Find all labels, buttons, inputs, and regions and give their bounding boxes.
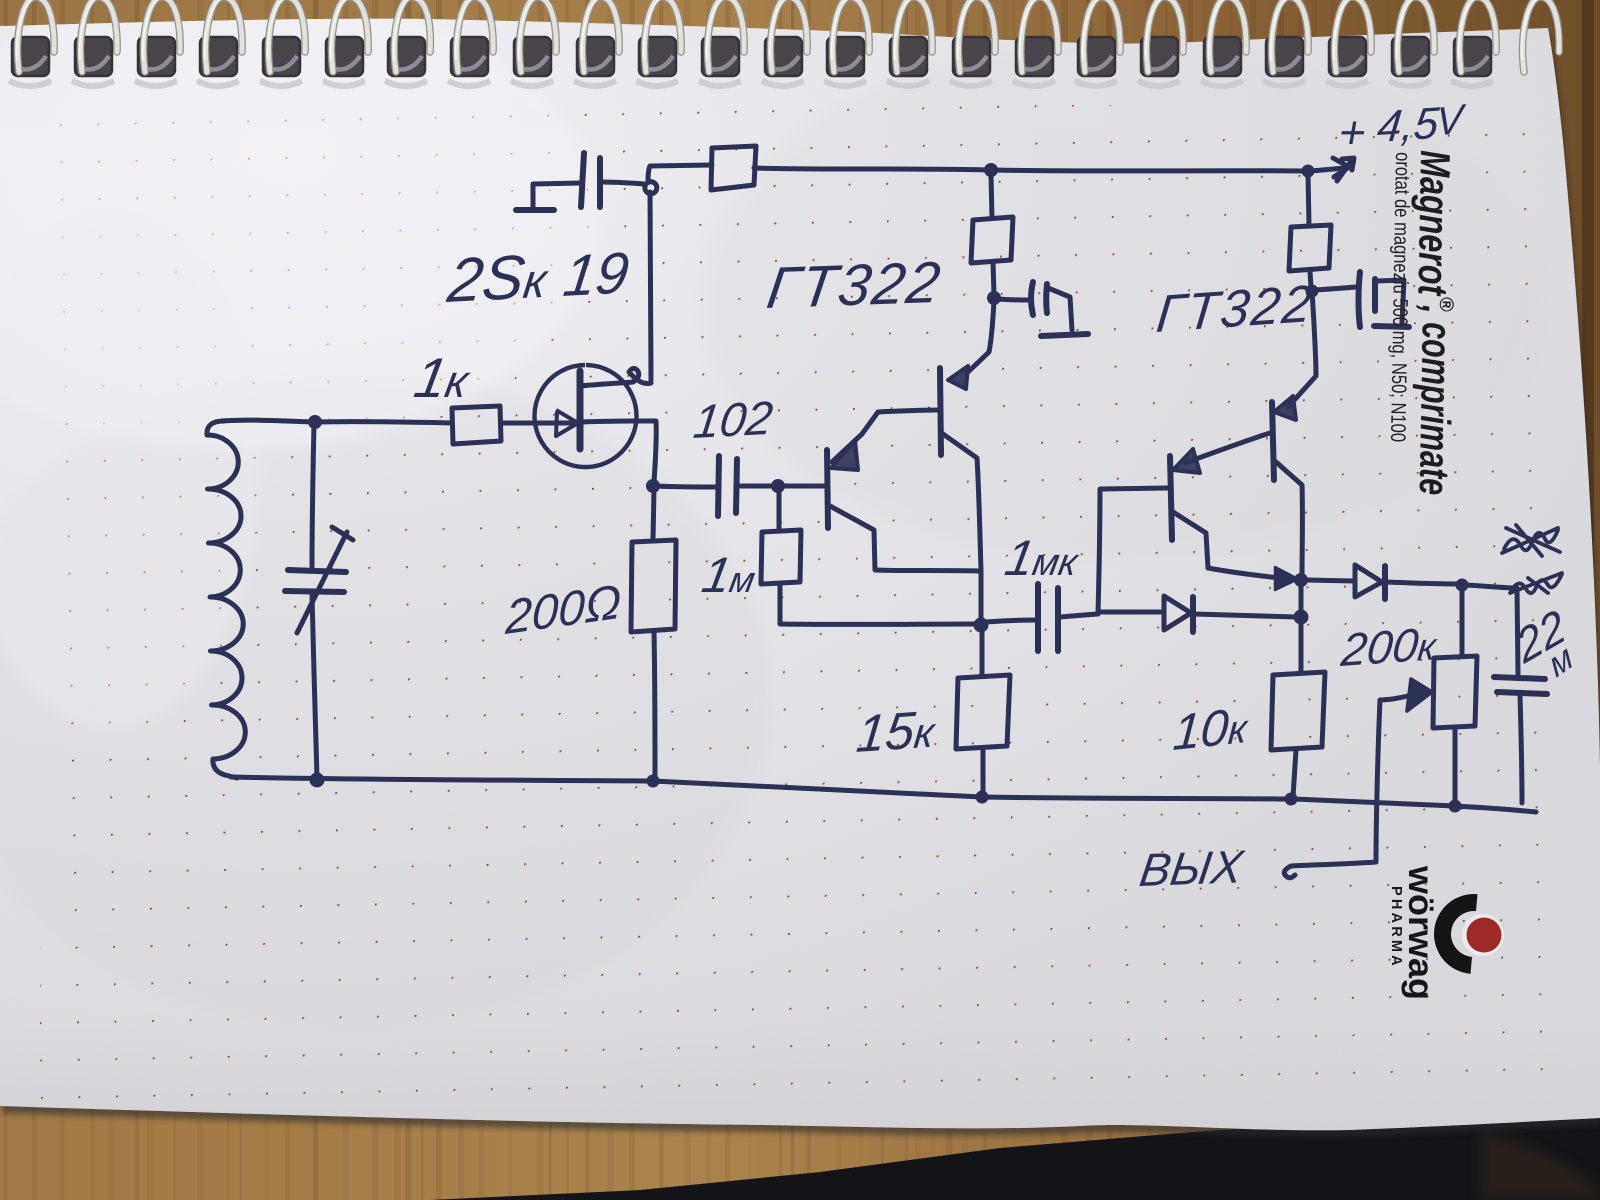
- C2 stub lead: [1048, 288, 1072, 330]
- top-left capacitor C1 lead: [533, 183, 581, 209]
- transistor V4 emitter wire from node: [1288, 292, 1316, 407]
- svg-text:15к: 15к: [854, 700, 940, 764]
- resistor R4 200ohm box: [631, 540, 676, 632]
- resistor R8 10k wire top: [1299, 621, 1304, 673]
- JFET V1 gate arrow: [556, 410, 578, 436]
- svg-text:, comprimate: , comprimate: [1411, 304, 1461, 496]
- capacitor C2 left plate: [1031, 282, 1033, 315]
- transistor V1a base bar (first of pair): [827, 450, 828, 528]
- node bottom rail at pot: [1449, 800, 1462, 813]
- transistor V4 base bar: [1272, 402, 1274, 480]
- svg-text:PHARMA: PHARMA: [1388, 886, 1404, 969]
- wire node down to variable capacitor: [312, 424, 314, 568]
- transistor V2 base bar: [940, 368, 941, 455]
- resistor R2 box on top rail: [711, 146, 756, 190]
- transistor V1a collector: [830, 506, 980, 571]
- node top rail stage2: [1302, 165, 1315, 178]
- capacitor C5 bottom wire: [1520, 695, 1522, 803]
- capacitor C5 bottom plate: [1497, 692, 1547, 694]
- node below R3: [987, 291, 1001, 305]
- capacitor C102 right plate: [736, 459, 737, 513]
- resistor R7 box: [1289, 225, 1331, 271]
- svg-text:ГТ322: ГТ322: [1154, 275, 1317, 344]
- diode VD1 left wire: [1100, 610, 1163, 615]
- svg-text:V: V: [1436, 96, 1467, 145]
- capacitor C3 1uk left wire: [985, 620, 1035, 622]
- worwag logo red dot: [1462, 914, 1504, 956]
- capacitor C5 22m top wire with scribble: [1466, 585, 1518, 674]
- node bottom of tank: [310, 773, 325, 788]
- resistor R8 wire to rail: [1293, 750, 1296, 797]
- diode VD2 bar: [1382, 566, 1388, 599]
- C4 stub bar: [1374, 326, 1409, 327]
- diode VD2 right wire: [1387, 582, 1458, 584]
- node top of tank: [308, 415, 322, 429]
- top-left capacitor C1 right plate: [597, 158, 603, 207]
- node VD1 output: [1294, 610, 1309, 625]
- dot grid: [40, 105, 1560, 1105]
- wire base V1a from coupling node: [781, 484, 826, 489]
- inductor L1: [207, 421, 245, 778]
- node top rail stage1: [984, 163, 998, 177]
- wire top node down to R3: [991, 175, 992, 218]
- diode VD1 bar: [1190, 597, 1196, 632]
- crossed out scribble 1: [1502, 525, 1560, 556]
- node at jfet source bottom: [646, 479, 660, 493]
- svg-text:200к: 200к: [1338, 617, 1441, 676]
- wiper wire: [1284, 695, 1412, 878]
- node at 102 output: [771, 479, 785, 493]
- diode VD2 triangle: [1355, 565, 1382, 597]
- potentiometer R9 wiper arrow: [1407, 679, 1432, 711]
- top rail wire to first stage node: [754, 168, 988, 170]
- potentiometer R9 wire bottom: [1453, 728, 1458, 804]
- svg-text:ВЫХ: ВЫХ: [1137, 840, 1248, 896]
- resistor R5 1M top wire: [777, 489, 782, 530]
- transistor V4 emitter arrow: [1274, 396, 1296, 420]
- resistor R4 wire to rail: [654, 632, 655, 779]
- variable capacitor C-var top plate: [288, 570, 346, 572]
- transistor V1a emitter arrow: [831, 440, 858, 470]
- spiral binding: [8, 37, 1494, 89]
- transistor V2 emitter wire from node: [967, 300, 994, 373]
- wire collector join down to output node stage1: [979, 571, 984, 622]
- resistor R4 200ohm top wire: [653, 489, 654, 540]
- resistor R3 box: [971, 217, 1013, 263]
- crossed out scribble 2: [1510, 573, 1562, 593]
- wire R5 bottom to stage1 node: [780, 622, 978, 627]
- wire coil top to node: [222, 420, 312, 422]
- top-left capacitor C1 left plate: [581, 153, 584, 207]
- small arrow under plus sign: [1337, 158, 1354, 181]
- JFET V1 source lead: [582, 421, 656, 483]
- diode VD1 right wire: [1194, 614, 1297, 617]
- svg-text:4,5: 4,5: [1375, 99, 1442, 152]
- resistor R6 wire to rail: [981, 749, 986, 795]
- node stage1 output: [974, 618, 989, 633]
- capacitor C5 top plate: [1494, 677, 1545, 679]
- wire up to V3 base: [1098, 488, 1167, 614]
- svg-text:Magnerot: Magnerot: [1409, 150, 1459, 297]
- transistor V3 collector: [1173, 512, 1208, 568]
- diode VD1 triangle: [1164, 596, 1191, 630]
- resistor R6 15k box: [956, 675, 1010, 749]
- variable capacitor C-var bottom plate: [285, 591, 344, 592]
- variable capacitor arrow: [297, 527, 353, 633]
- worwag logo crescent: [1431, 891, 1478, 974]
- arrow on collector wire: [1275, 567, 1298, 590]
- potentiometer R9 wire top: [1460, 589, 1465, 656]
- node collectors stage2: [1294, 573, 1308, 587]
- wire drain up to top junction: [650, 192, 651, 380]
- coupling capacitor C102 left wire: [656, 486, 717, 487]
- wire node617 to node580: [1299, 585, 1304, 612]
- transistor V2 emitter arrow: [948, 366, 968, 389]
- transistor V4 collector: [1276, 462, 1302, 576]
- dark shadow wedge bottom right: [430, 1098, 1600, 1200]
- transistor V1a emitter wire to V2 base: [832, 410, 939, 462]
- transistor V3 base bar: [1170, 456, 1172, 540]
- transistor V2 collector: [943, 434, 981, 570]
- JFET V1 channel bar: [577, 371, 584, 449]
- node bottom rail at 15k: [976, 791, 989, 804]
- capacitor C2 right plate: [1043, 284, 1050, 313]
- C2 stub bar: [1041, 334, 1088, 336]
- capacitor C102 left plate: [718, 456, 719, 516]
- transistor V3 emitter wire: [1185, 433, 1270, 463]
- top rail wire left segment: [648, 165, 712, 182]
- node VD2 output: [1456, 579, 1469, 592]
- wire C1 to junction: [601, 182, 644, 184]
- node bottom rail at 200ohm: [647, 775, 660, 788]
- resistor R5 wire down: [778, 584, 783, 623]
- JFET V1 circle: [535, 365, 637, 467]
- top-left capacitor C1 stub bar: [516, 207, 554, 213]
- wire tank node to resistor R1: [318, 422, 452, 423]
- diode VD2 left wire: [1306, 580, 1354, 581]
- bottom ground rail wire: [231, 777, 1536, 812]
- resistor R5 1M box: [761, 530, 801, 584]
- wire R3 to emitter node: [993, 262, 994, 295]
- wire R1 to gate: [501, 421, 556, 426]
- JFET V1 drain lead: [580, 368, 651, 386]
- capacitor C3 right plate: [1055, 588, 1061, 651]
- junction ring top of drain wire: [645, 182, 657, 194]
- wire R7 to node: [1310, 271, 1311, 288]
- capacitor C3 left plate: [1035, 584, 1041, 651]
- wire variable capacitor to bottom rail: [312, 594, 317, 778]
- resistor R6 15k wire top: [980, 628, 985, 676]
- capacitor C3 right wire: [1060, 614, 1097, 617]
- svg-text:ГТ322: ГТ322: [763, 250, 946, 321]
- +4.5V arrow on top rail: [1311, 158, 1349, 177]
- capacitor C4 left plate: [1359, 272, 1361, 327]
- C4 stub lead: [1376, 280, 1404, 323]
- wire node to bypass cap C2: [997, 299, 1031, 300]
- transistor V3 emitter arrow: [1173, 449, 1200, 473]
- node bottom rail at 10k: [1285, 793, 1298, 806]
- potentiometer R9 box: [1433, 656, 1477, 728]
- top rail wire to second stage node: [995, 170, 1305, 171]
- node below R7: [1306, 285, 1319, 298]
- wire stage2 top node down to R7: [1308, 174, 1309, 225]
- resistor R1 1k box: [452, 406, 501, 444]
- resistor R8 10k box: [1271, 672, 1325, 750]
- svg-text:102: 102: [691, 392, 776, 449]
- wire V3 collector to shared node with arrow: [1208, 568, 1290, 579]
- capacitor C102 right wire: [738, 484, 775, 489]
- wire node to bypass cap C4: [1315, 287, 1356, 290]
- capacitor C4 right plate: [1372, 279, 1378, 311]
